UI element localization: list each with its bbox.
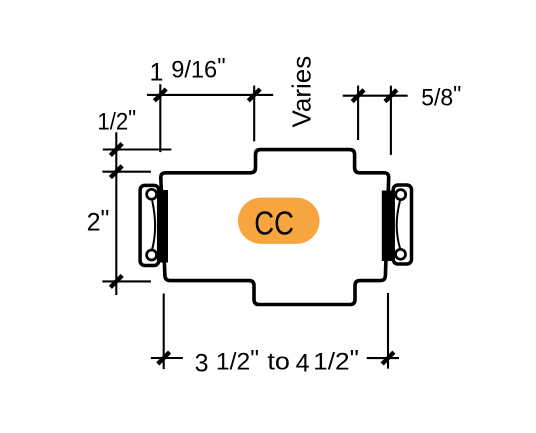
left bracket top screw hole <box>147 189 157 199</box>
left mounting bracket frame <box>140 185 159 265</box>
svg-text:1/2": 1/2" <box>313 345 359 375</box>
tick at 5/8 right <box>385 90 397 102</box>
left bracket spring wire <box>152 201 155 250</box>
svg-text:5/8": 5/8" <box>421 82 461 112</box>
dimension line 5/8 <box>343 95 408 97</box>
svg-text:2": 2" <box>87 206 110 237</box>
tick at bottom right <box>382 352 394 364</box>
left vertical dimension line <box>115 132 117 295</box>
svg-text:Varies: Varies <box>287 56 317 128</box>
right gasket bar <box>382 191 392 262</box>
extension line at plate bottom left <box>163 294 165 370</box>
cross-shaped plate outline <box>161 150 389 305</box>
svg-text:9/16": 9/16" <box>171 53 225 83</box>
svg-text:1: 1 <box>150 58 164 86</box>
bottom dimension line right segment <box>367 357 399 359</box>
svg-text:to: to <box>267 348 290 375</box>
right bracket top screw hole <box>396 190 406 200</box>
tick shared 1/2 bottom 2 top <box>110 166 122 178</box>
extension line at tab top level <box>103 148 172 150</box>
extension line at plate left top <box>159 84 161 152</box>
svg-text:4: 4 <box>296 350 310 378</box>
tick at 1 9/16 left <box>154 89 166 101</box>
extension line at plate bottom right <box>387 293 389 369</box>
extension line at top tab left <box>253 86 255 142</box>
extension line at plate right top <box>390 86 392 155</box>
tick at 2 bottom <box>110 276 122 288</box>
tick at 1/2 top <box>110 144 122 156</box>
right bracket spring wire <box>397 201 400 248</box>
extension line at plate top level <box>102 171 150 173</box>
tick at bottom left <box>158 352 170 364</box>
extension line at top tab right <box>357 86 359 140</box>
svg-text:1/2": 1/2" <box>216 345 259 375</box>
dimension line 1 9/16 <box>147 94 273 96</box>
CC callout pill <box>238 198 320 244</box>
bottom dimension line left segment <box>151 357 183 359</box>
left bracket bottom screw hole <box>147 250 157 260</box>
right mounting bracket frame <box>393 185 411 264</box>
svg-text:1/2": 1/2" <box>97 105 136 135</box>
svg-text:CC: CC <box>254 204 294 241</box>
svg-text:3: 3 <box>195 350 209 378</box>
tick at 5/8 left <box>352 90 364 102</box>
right bracket bottom screw hole <box>396 249 406 259</box>
tick at 1 9/16 right <box>248 89 260 101</box>
left gasket bar <box>159 190 168 263</box>
extension line at plate bottom level <box>102 280 150 282</box>
